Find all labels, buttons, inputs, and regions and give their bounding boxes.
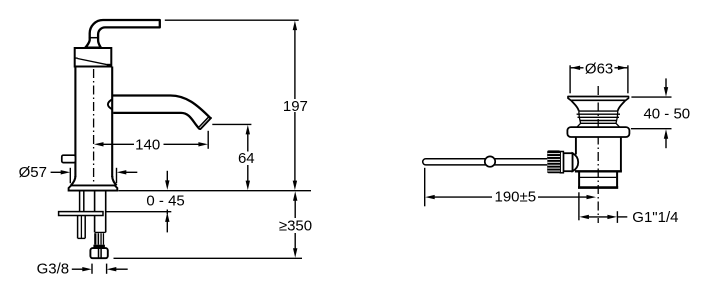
svg-text:Ø57: Ø57 bbox=[19, 164, 47, 181]
supply hose tube bbox=[94, 191, 96, 233]
dimension 140 bbox=[103, 143, 134, 145]
retaining ring bbox=[567, 127, 629, 137]
svg-text:64: 64 bbox=[238, 150, 255, 167]
left tab bbox=[62, 155, 76, 162]
svg-text:190±5: 190±5 bbox=[494, 188, 536, 205]
base flange bbox=[69, 185, 118, 190]
dimension diameter 63 bbox=[569, 65, 571, 93]
lever stem seam bbox=[89, 37, 99, 39]
knurled knob bbox=[547, 150, 560, 173]
knob collar bbox=[560, 152, 563, 173]
groove lines bbox=[579, 110, 618, 112]
trumpet left side bbox=[571, 100, 579, 110]
spout bottom line bbox=[113, 113, 198, 128]
G3/8 nut bbox=[90, 248, 107, 258]
hose ribs bbox=[94, 233, 96, 245]
base flare right bbox=[112, 176, 116, 185]
cap left step bbox=[75, 57, 78, 59]
spout joint bulge bbox=[108, 99, 113, 109]
spout outlet face outer bbox=[198, 118, 211, 129]
svg-text:40 - 50: 40 - 50 bbox=[643, 105, 690, 122]
pivot fitting bbox=[573, 153, 579, 171]
svg-text:140: 140 bbox=[135, 137, 160, 154]
svg-text:Ø63: Ø63 bbox=[585, 61, 613, 78]
base flare left bbox=[71, 176, 76, 185]
svg-text:197: 197 bbox=[283, 98, 308, 115]
dimension >=350 bbox=[294, 200, 296, 218]
mounting stud upper bbox=[79, 191, 81, 212]
cartridge cap bbox=[75, 48, 112, 67]
dimension diameter 57 bbox=[51, 171, 62, 173]
clamp plate bbox=[59, 212, 103, 216]
hose collar bbox=[93, 245, 105, 248]
groove side left bbox=[577, 111, 581, 127]
pull rod bbox=[423, 159, 548, 165]
lever handle bbox=[85, 20, 160, 48]
groove side right bbox=[616, 111, 620, 127]
deck line bbox=[118, 190, 311, 192]
faucet body right edge bbox=[111, 67, 113, 178]
cap right step bbox=[107, 64, 111, 66]
dimension 0 - 45 bbox=[166, 171, 168, 181]
faucet body left edge bbox=[74, 67, 76, 178]
body centerline bbox=[93, 69, 95, 185]
dimension 197 bbox=[294, 29, 296, 99]
drain centerline bbox=[597, 86, 599, 223]
trumpet right side bbox=[618, 100, 626, 110]
dimension 40 - 50 bbox=[631, 96, 671, 98]
dimension G3/8 bbox=[72, 268, 83, 270]
drain body bbox=[575, 137, 577, 155]
drain rim bbox=[568, 97, 629, 101]
svg-text:0 - 45: 0 - 45 bbox=[146, 193, 184, 210]
lever top extension line bbox=[165, 19, 299, 21]
hose end extension line bbox=[114, 257, 303, 259]
svg-text:G1"1/4: G1"1/4 bbox=[632, 209, 678, 226]
spout outlet face inner bbox=[199, 116, 210, 127]
spout top line bbox=[112, 96, 211, 119]
svg-text:G3/8: G3/8 bbox=[37, 261, 70, 278]
stud lower bbox=[77, 216, 79, 239]
tailpiece bbox=[578, 173, 580, 188]
dimension G1"1/4 bbox=[578, 192, 580, 220]
deck bottom extension line bbox=[106, 211, 172, 213]
dimension 64 bbox=[212, 123, 251, 125]
dimension 190 +/- 5 bbox=[424, 168, 426, 207]
rod ball bbox=[485, 156, 495, 166]
svg-text:≥350: ≥350 bbox=[279, 218, 312, 235]
cap diagonal bbox=[77, 59, 109, 66]
